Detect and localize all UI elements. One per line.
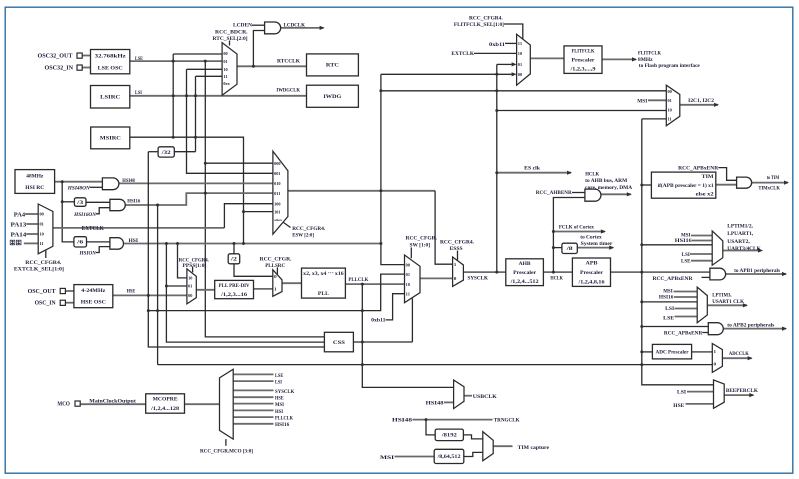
svg-text:OSC_IN: OSC_IN — [35, 301, 57, 307]
svg-text:HSI48: HSI48 — [392, 417, 412, 423]
wire OSC32_IN pin to LSE OSC — [82, 67, 91, 69]
and-gate TIM enable — [737, 177, 752, 188]
svg-text:ESW [2:0]: ESW [2:0] — [292, 232, 314, 238]
svg-text:RCC_BDCR.: RCC_BDCR. — [215, 29, 248, 35]
svg-text:/1,2,3...16: /1,2,3...16 — [220, 292, 248, 298]
svg-text:11: 11 — [668, 117, 672, 122]
wire SW output to ESSS input 0 — [420, 277, 453, 279]
svg-text:/3: /3 — [76, 201, 84, 206]
svg-text:HSION: HSION — [78, 251, 96, 257]
wire SYSCLK vertical bus — [496, 64, 498, 272]
wire LSE bus down to CSS input 1 — [205, 61, 324, 337]
wire LSI up to RTC input 10 — [186, 69, 188, 96]
svg-text:SW [1:0]: SW [1:0] — [410, 242, 431, 248]
svg-text:RTCCLK: RTCCLK — [277, 59, 301, 65]
wire LPTIM12 output arrow — [723, 250, 762, 252]
svg-text:HSI16: HSI16 — [675, 238, 692, 244]
wire PA13 to mux — [26, 223, 38, 225]
block HSE oscillator — [74, 285, 113, 308]
mux I2C clock — [666, 85, 680, 126]
svg-text:101: 101 — [274, 209, 280, 214]
svg-text:8MHz: 8MHz — [638, 57, 653, 63]
svg-text:to AHB bus, ARM: to AHB bus, ARM — [585, 178, 627, 184]
svg-text:HCLK: HCLK — [550, 275, 563, 281]
wire HSE to PPSS input 00 — [113, 294, 187, 296]
svg-text:SYSCLK: SYSCLK — [468, 276, 489, 282]
block LSE oscillator — [91, 50, 130, 74]
and-gate APB2 enable — [708, 323, 723, 335]
svg-text:TRNGCLK: TRNGCLK — [494, 418, 521, 424]
svg-text:4-24MHz: 4-24MHz — [81, 288, 106, 294]
and-gate HSI48 — [102, 178, 119, 190]
wire MCO mux input — [233, 409, 273, 411]
svg-text:0xb11: 0xb11 — [371, 318, 386, 324]
wire TIM block to gate — [716, 184, 737, 186]
wire HSI48ON to gate — [90, 186, 103, 188]
block MCO prescaler — [146, 394, 185, 413]
svg-text:PLL PRE-DIV: PLL PRE-DIV — [219, 283, 250, 289]
svg-text:SYSCLK: SYSCLK — [275, 390, 295, 395]
svg-text:10: 10 — [518, 51, 522, 56]
divider /32 — [158, 147, 174, 157]
block LSI RC — [91, 86, 130, 109]
svg-text:010: 010 — [274, 181, 280, 186]
svg-text:01: 01 — [668, 98, 672, 103]
svg-text:OSC_OUT: OSC_OUT — [28, 289, 56, 295]
svg-text:MSI: MSI — [380, 455, 394, 461]
wire to I2C mux input 00 — [381, 90, 666, 92]
mux RTC clock select RTC_SEL — [222, 43, 237, 96]
wire HSI16 to ESW mux input 011 — [125, 193, 273, 205]
wire MCO mux input — [233, 373, 273, 375]
wire /2 to PLLSRC input 0 — [234, 264, 273, 277]
block CSS — [324, 332, 353, 352]
mux BEEPER clock — [714, 380, 725, 408]
block AHB prescaler — [506, 259, 544, 286]
svg-text:HSI16: HSI16 — [275, 423, 290, 428]
wire MCO pin to MCOPRE — [81, 403, 146, 405]
wire RTCCLK to RTC — [237, 65, 307, 67]
svg-text:/8: /8 — [565, 247, 573, 252]
svg-text:10: 10 — [188, 276, 192, 281]
wire MCO mux input — [233, 403, 273, 405]
wire CSS output — [353, 341, 412, 343]
wire HSE stub — [686, 403, 714, 405]
svg-text:PLLSRC: PLLSRC — [265, 263, 285, 269]
wire LSI stub — [690, 253, 712, 255]
svg-text:LSE: LSE — [135, 56, 143, 62]
pin OSC_IN — [60, 300, 65, 305]
svg-text:ES clk: ES clk — [524, 166, 540, 172]
wire HSI16 bus down to long line — [157, 205, 159, 365]
svg-text:MSI: MSI — [275, 403, 284, 408]
wire I2C1 I2C2 output — [680, 104, 718, 106]
svg-text:AHB: AHB — [519, 261, 531, 267]
svg-text:001: 001 — [274, 171, 280, 176]
svg-text:/6: /6 — [76, 241, 84, 246]
wire ESW input 000 — [205, 162, 273, 164]
svg-text:00: 00 — [518, 72, 522, 77]
svg-text:I2C1, I2C2: I2C1, I2C2 — [688, 98, 714, 104]
wire ADCCLK output arrow — [722, 357, 751, 359]
svg-text:to Cortex: to Cortex — [580, 235, 602, 241]
svg-text:FCLK of Cortex: FCLK of Cortex — [559, 225, 594, 231]
svg-text:to TIM: to TIM — [767, 175, 780, 181]
wire MCO mux input — [233, 423, 273, 425]
wire RCC_AHBENR to gate — [572, 192, 585, 194]
wire HSI row to SW bus — [124, 243, 381, 245]
wire ESW output down to ESSS input 1 — [435, 191, 453, 264]
divider /8 — [562, 243, 577, 253]
svg-text:RCC_APBxENR: RCC_APBxENR — [678, 166, 718, 172]
wire HSI48 to USB mux — [444, 401, 454, 403]
svg-text:RCC_CFGR.: RCC_CFGR. — [260, 257, 293, 263]
pin OSC32_OUT — [77, 53, 82, 58]
svg-text:RCC_CFGR4.: RCC_CFGR4. — [469, 16, 503, 22]
svg-text:0xx: 0xx — [223, 81, 230, 86]
wire PCLK to APB1 gate — [611, 271, 710, 273]
svg-text:USBCLK: USBCLK — [473, 394, 498, 400]
svg-text:00: 00 — [188, 293, 192, 298]
wire HSI16ON elbow to gate — [96, 208, 110, 214]
svg-text:0: 0 — [274, 274, 277, 279]
svg-text:1: 1 — [274, 287, 277, 292]
wire /8 to Cortex system timer — [577, 247, 613, 249]
wire /3 to HSI16 gate — [86, 201, 110, 203]
wire LSI stub — [687, 391, 714, 393]
wire RTC mux input 00 — [173, 53, 222, 55]
svg-text:32.768kHz: 32.768kHz — [95, 53, 127, 59]
block IWDG — [307, 85, 359, 107]
wire RTC_SEL label tick — [229, 41, 231, 46]
svg-text:HSE OSC: HSE OSC — [81, 300, 106, 306]
mux system clock ESW — [273, 151, 288, 234]
svg-text:FLITFCLK: FLITFCLK — [572, 48, 596, 54]
block 48MHz HSI RC — [15, 170, 55, 194]
wire PCLK to TIM multiplier — [642, 184, 652, 186]
wire LCDEN to gate — [252, 24, 265, 26]
pin OSC_OUT — [60, 288, 65, 293]
wire /8192 to capture mux — [463, 435, 482, 439]
svg-text:if(APB prescaler = 1) x1: if(APB prescaler = 1) x1 — [658, 182, 714, 189]
svg-text:HSE: HSE — [673, 403, 684, 409]
block RTC — [307, 54, 359, 76]
wire to I2C mux input 10 — [497, 110, 667, 112]
svg-text:others: others — [274, 218, 283, 222]
wire PPSS output to PLL PRE-DIV — [196, 289, 214, 291]
svg-text:PLLCLK: PLLCLK — [275, 417, 293, 422]
divider /6 — [74, 237, 87, 247]
svg-text:Prescaler: Prescaler — [580, 270, 604, 276]
wire TIMxCLK output arrow — [752, 182, 788, 184]
and-gate AHB enable — [585, 189, 601, 201]
svg-text:MCO: MCO — [57, 401, 70, 407]
svg-text:HSI: HSI — [275, 410, 283, 415]
wire MCO mux input — [233, 380, 273, 382]
divider /8 64 512 — [434, 449, 464, 463]
svg-text:011: 011 — [274, 191, 280, 196]
svg-text:LSI: LSI — [135, 90, 142, 96]
svg-text:LSE: LSE — [681, 259, 691, 265]
svg-text:RTC_SEL[2:0]: RTC_SEL[2:0] — [213, 36, 248, 42]
svg-text:LSI: LSI — [682, 252, 690, 258]
svg-text:HSI16: HSI16 — [127, 199, 140, 205]
wire LSE stub — [691, 260, 712, 262]
divider /3 — [74, 198, 86, 207]
svg-text:PLL: PLL — [318, 291, 329, 297]
svg-text:/1,2,3,...,9: /1,2,3,...,9 — [569, 67, 596, 73]
wire HSI divider bus to /6 — [62, 182, 74, 242]
svg-text:LPUART1,: LPUART1, — [727, 231, 754, 237]
svg-text:/1,2,4...512: /1,2,4...512 — [509, 279, 539, 285]
svg-text:EXTCLK: EXTCLK — [451, 51, 474, 57]
svg-text:Prescaler: Prescaler — [513, 270, 537, 276]
divider /8192 — [435, 429, 463, 441]
svg-text:Prescaler: Prescaler — [572, 58, 596, 64]
svg-text:RCC_CFGR4.: RCC_CFGR4. — [440, 239, 475, 245]
wire PLLCLK down to USB mux — [362, 284, 453, 387]
svg-text:RCC_APBxENR: RCC_APBxENR — [653, 276, 693, 282]
svg-text:CSS: CSS — [333, 340, 345, 346]
wire /32 left — [148, 151, 158, 153]
wire PCLK to LPTIM3 mux — [642, 301, 697, 303]
svg-text:to APB1 peripherals: to APB1 peripherals — [734, 268, 780, 274]
wire HSE bus down to CSS input 3 — [148, 152, 324, 347]
svg-text:11: 11 — [518, 41, 522, 46]
svg-text:10: 10 — [668, 107, 672, 112]
svg-text:PPSS[1:0]: PPSS[1:0] — [183, 263, 207, 269]
svg-text:OSC32_OUT: OSC32_OUT — [38, 54, 73, 60]
svg-text:10: 10 — [406, 282, 410, 287]
svg-text:/8192: /8192 — [440, 434, 457, 439]
svg-text:ESSS: ESSS — [450, 246, 463, 252]
wire PLLCLK to SW mux input 10 — [345, 283, 404, 285]
svg-text:HSI RC: HSI RC — [25, 185, 44, 191]
wire vertical bus at x=173 — [172, 54, 174, 137]
svg-text:01: 01 — [406, 272, 410, 277]
svg-text:PLLCLK: PLLCLK — [348, 277, 369, 283]
wire RTC mux input 10 — [187, 68, 223, 70]
wire bus to SW mux input 01 — [148, 274, 404, 311]
wire LSE output to RTC mux input 01 — [130, 60, 222, 62]
wire HCLK to APB prescaler — [543, 271, 572, 273]
svg-text:10: 10 — [40, 232, 44, 237]
svg-text:/8,64,512: /8,64,512 — [436, 455, 461, 460]
wire reserved to mux — [24, 242, 38, 244]
svg-text:OSC32_IN: OSC32_IN — [45, 66, 74, 72]
svg-text:LSE OSC: LSE OSC — [98, 66, 123, 72]
wire HSI16 stub — [674, 296, 697, 298]
svg-text:HSI16ON: HSI16ON — [73, 212, 96, 218]
mux FLITFCLK_SEL — [517, 34, 531, 85]
wire PA4 to mux — [25, 213, 38, 215]
svg-text:RCC_CFGR4.: RCC_CFGR4. — [292, 226, 326, 232]
wire USBCLK output — [464, 395, 472, 397]
wire PCLK to APB2 gate — [642, 326, 709, 328]
wire bus down to CSS input 2 — [166, 244, 324, 343]
svg-text:01: 01 — [518, 62, 522, 67]
wire MSI to /8,64,512 — [395, 456, 435, 458]
mux RCC_CFGR.SW — [405, 255, 421, 303]
wire to FLITF mux input 01 — [497, 63, 512, 65]
wire SW label tick — [410, 248, 412, 259]
svg-text:/1,2,4...128: /1,2,4...128 — [150, 406, 180, 412]
svg-text:0: 0 — [714, 362, 717, 367]
wire HCLK to /8 — [553, 247, 562, 249]
svg-text:11: 11 — [40, 241, 44, 246]
svg-text:RCC_CFGR.MCO [3:0]: RCC_CFGR.MCO [3:0] — [200, 448, 253, 454]
svg-text:EXTCLK: EXTCLK — [82, 226, 105, 232]
wire EXTCLK to FLITF input 10 — [474, 52, 517, 54]
wire to ADC prescaler — [642, 351, 653, 353]
svg-text:RCC_CFGR.: RCC_CFGR. — [406, 236, 438, 242]
mux USB clock — [454, 380, 464, 409]
svg-text:ADC Prescaler: ADC Prescaler — [656, 349, 690, 355]
svg-text:MainClockOutput: MainClockOutput — [89, 399, 136, 405]
wire RCC_APBxENR to APB2 gate — [702, 332, 708, 334]
wire /8,64,512 to capture mux — [464, 452, 483, 456]
svg-text:01: 01 — [223, 59, 227, 64]
svg-text:HSI: HSI — [129, 238, 139, 244]
wire to AHB bus arrow — [601, 193, 631, 195]
wire TIM capture output — [493, 445, 512, 447]
wire 0xb11 to FLITF input 11 — [505, 42, 517, 44]
wire vertical bus to SW mux input 00 — [381, 74, 405, 264]
wire PLLSRC to PLL — [282, 282, 302, 284]
wire BEEPERCLK output arrow — [724, 394, 753, 396]
mux ADC clock — [712, 344, 722, 373]
mux LPTIM1/2 LPUART1 USART2 clock — [712, 231, 723, 265]
wire ADC prescaler to mux input 1 — [692, 351, 713, 353]
svg-text:0xb11: 0xb11 — [489, 42, 505, 48]
svg-text:1: 1 — [454, 262, 457, 267]
wire to I2C input 11 — [642, 118, 667, 120]
pin OSC32_IN — [77, 65, 82, 70]
wire vertical bus at x=195 — [195, 76, 197, 151]
wire LCDCLK output — [281, 27, 324, 29]
wire RTCCLK up to LCD gate — [253, 31, 264, 67]
svg-text:/1,2,4,8,16: /1,2,4,8,16 — [577, 280, 605, 286]
wire FLITFCLK output arrow — [602, 58, 636, 60]
svg-text:10: 10 — [223, 67, 227, 72]
svg-text:UART3/4CLK: UART3/4CLK — [727, 246, 761, 252]
wire PA14 to mux — [26, 233, 38, 235]
wire right vertical bus to BEEPER mux — [642, 119, 714, 385]
svg-text:to APB2 peripherals: to APB2 peripherals — [727, 322, 774, 328]
wire LSI output to IWDG (IWDGCLK) — [130, 95, 307, 97]
wire /32 right jog — [174, 151, 195, 153]
wire FLITF mux to prescaler — [530, 57, 564, 59]
wire HSI48 to ESW mux input 010 — [119, 182, 273, 184]
wire 0xb11 to SW mux input 11 — [386, 294, 405, 320]
svg-text:/32: /32 — [160, 151, 171, 156]
wire FLITFCLK_SEL to mux — [504, 24, 523, 39]
and-gate LCDCLK — [265, 22, 281, 34]
arrowheads — [320, 26, 789, 397]
wire HSI48 to TRNGCLK — [413, 419, 493, 421]
mux EXTCLK_SEL — [38, 204, 53, 254]
wire ESSS label tick — [457, 251, 459, 261]
label reserved (CJK) — [10, 240, 21, 245]
svg-text:PA13: PA13 — [11, 223, 27, 229]
wire HSION elbow to gate — [96, 247, 110, 253]
wire PCLK to LPTIM12 mux — [642, 244, 712, 246]
wire MCO mux input — [233, 396, 273, 398]
wire HCLK up to AHB enable gate — [553, 198, 585, 273]
wire to FLITF mux input 00 — [381, 73, 512, 75]
svg-text:to Flash program interface: to Flash program interface — [639, 63, 701, 69]
svg-text:PA4: PA4 — [14, 213, 25, 219]
svg-text:LSE: LSE — [275, 374, 283, 379]
svg-text:core, memory, DMA: core, memory, DMA — [585, 185, 632, 191]
block ADC prescaler — [652, 344, 691, 359]
svg-text:BEEPERCLK: BEEPERCLK — [726, 388, 759, 394]
mux TIM capture — [483, 432, 493, 461]
wire MSI stub — [691, 235, 712, 237]
wire LSI stub — [675, 308, 698, 310]
wire PPSS input 01 — [166, 285, 187, 287]
svg-text:x2, x3, x4 ⋯ x16: x2, x3, x4 ⋯ x16 — [303, 271, 344, 277]
block PLL multiplier — [302, 268, 346, 298]
wire ES clk arrow — [497, 172, 571, 174]
wire OSC_OUT pin — [65, 290, 74, 292]
svg-text:LPTIM1/2,: LPTIM1/2, — [727, 224, 753, 230]
svg-text:HSE: HSE — [275, 397, 284, 402]
wire tap to /3 — [62, 201, 74, 203]
wire to APB2 peripherals arrow — [723, 328, 786, 330]
svg-text:11: 11 — [223, 74, 227, 79]
wire RTC mux input 11 — [196, 75, 223, 77]
wire HSI down to PPSS input 10 — [178, 244, 187, 278]
pin MCO — [75, 401, 80, 406]
wire long HSI16 line to ADC mux input 0 — [158, 364, 713, 366]
wire SYSCLK to AHB prescaler — [463, 271, 506, 273]
svg-text:00: 00 — [668, 89, 672, 94]
svg-text:HSI48ON: HSI48ON — [67, 186, 90, 192]
svg-text:01: 01 — [188, 284, 192, 289]
wire MCOPRE to MCO mux — [185, 403, 220, 405]
svg-text:000: 000 — [274, 161, 280, 166]
svg-text:EXTCLK_SEL[1:0]: EXTCLK_SEL[1:0] — [14, 267, 64, 273]
wire PPSS label tick — [192, 267, 194, 273]
svg-text:LSIRC: LSIRC — [100, 95, 120, 101]
svg-text:RCC_CFGR4.: RCC_CFGR4. — [25, 260, 62, 266]
svg-text:LSI: LSI — [677, 390, 686, 396]
svg-text:TIMxCLK: TIMxCLK — [758, 185, 780, 191]
svg-text:IWDG: IWDG — [323, 94, 341, 100]
wire HSI tap to /2 — [233, 244, 235, 254]
wire OSC_IN pin — [65, 302, 74, 304]
svg-text:RCC_AHBENR: RCC_AHBENR — [536, 190, 572, 196]
svg-text:LSI: LSI — [665, 306, 674, 312]
wire MSI output down to HSI row — [130, 137, 244, 243]
wire MSI to ESW input 101 — [244, 211, 273, 213]
svg-text:HSI16: HSI16 — [659, 295, 674, 301]
svg-text:00: 00 — [40, 212, 44, 217]
svg-text:HSI48: HSI48 — [426, 400, 444, 406]
wire OSC32_OUT pin to LSE OSC — [82, 55, 91, 57]
svg-text:LSI: LSI — [275, 381, 282, 386]
wire EXTCLK up to ESW input 100 — [224, 204, 273, 228]
wire MCO mux input — [233, 416, 273, 418]
wire PLLSRC label tick — [276, 267, 278, 274]
wire EXTCLK_SEL label tick — [45, 250, 47, 258]
wire RCC_APBxENR to APB1 gate — [702, 276, 710, 278]
svg-text:00: 00 — [406, 262, 410, 267]
svg-text:11: 11 — [406, 291, 410, 296]
wire CSS output up to SW mux — [411, 298, 413, 342]
wire ESW mux output — [288, 190, 435, 192]
